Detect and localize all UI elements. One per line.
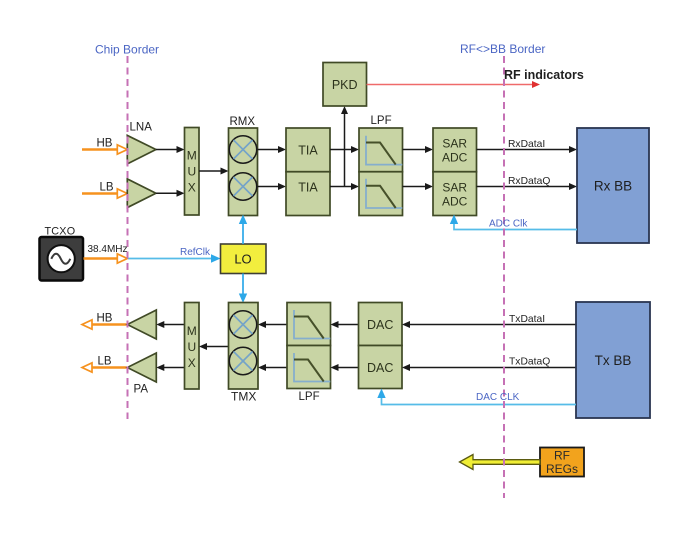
wire TxDataQ [402, 364, 576, 371]
wire DAC to LPF (Q) [331, 364, 359, 371]
wire RF indicators (red) [367, 81, 541, 88]
block LPF Tx (I) [287, 303, 331, 346]
svg-text:DAC: DAC [367, 318, 393, 332]
block LPF Rx (I) [359, 128, 403, 172]
wire LPF to SAR ADC (Q) [403, 183, 434, 190]
svg-text:RxDataI: RxDataI [508, 139, 545, 150]
svg-text:TIA: TIA [298, 181, 318, 195]
border line Chip Border (dashed) [127, 56, 129, 419]
svg-text:HB: HB [97, 313, 113, 325]
svg-text:U: U [187, 340, 196, 354]
svg-text:X: X [188, 356, 196, 370]
svg-text:RMX: RMX [230, 116, 256, 128]
svg-text:ADC: ADC [442, 151, 468, 165]
block Tx BB [576, 302, 650, 418]
svg-text:TMX: TMX [231, 390, 256, 404]
filter curve LPF Tx I [294, 310, 330, 339]
wire TxDataI [402, 321, 576, 328]
mixer TMX-I [229, 311, 256, 338]
wire MUX to RMX [199, 168, 229, 175]
wire TCXO 38.4MHz output (orange) [84, 254, 128, 263]
svg-text:M: M [187, 149, 197, 163]
wire DAC to LPF (I) [331, 321, 359, 328]
arrow RF REGs bus (yellow) [460, 455, 541, 470]
wire DAC CLK (light blue) [377, 389, 576, 405]
block TMX [229, 303, 259, 390]
block LPF Tx (Q) [287, 346, 331, 389]
filter curve LPF Rx Q [366, 179, 402, 208]
block Rx BB [577, 128, 649, 243]
block PKD [323, 63, 367, 107]
svg-text:PA: PA [134, 384, 149, 396]
svg-text:SAR: SAR [442, 181, 467, 195]
wire ADC Clk (light blue) [450, 215, 577, 230]
wire LPF to SAR ADC (I) [403, 146, 434, 153]
wire RxDataQ [477, 183, 578, 190]
block MUX (Tx) [185, 303, 200, 390]
svg-text:REGs: REGs [546, 462, 578, 476]
block SAR ADC (Q) [433, 172, 477, 216]
wire TIA to LPF (Q) [330, 183, 359, 190]
wire LO to RMX (light blue, up) [239, 215, 247, 245]
wire LPF to TMX (Q) [258, 364, 287, 371]
block MUX (Rx) [185, 128, 200, 216]
wire LNA-LB to MUX [156, 190, 185, 197]
svg-text:ADC Clk: ADC Clk [489, 219, 528, 230]
wire RMX to TIA (Q) [258, 183, 287, 190]
wire MUX to PA (LB) [156, 364, 184, 371]
wire LB input (orange) [82, 189, 127, 198]
block RF REGs [540, 448, 584, 477]
svg-text:LO: LO [234, 252, 251, 267]
block RMX [229, 128, 258, 216]
svg-text:RxDataQ: RxDataQ [508, 176, 550, 187]
svg-text:TCXO: TCXO [45, 226, 76, 238]
mixer TMX-Q [229, 347, 256, 374]
svg-text:TIA: TIA [298, 144, 318, 158]
wire TMX to MUX [199, 343, 229, 350]
svg-text:DAC: DAC [367, 361, 393, 375]
block LPF Rx (Q) [359, 172, 403, 216]
mixer RMX-I [229, 136, 256, 163]
svg-text:LPF: LPF [371, 115, 392, 127]
filter curve LPF Tx Q [294, 353, 330, 382]
wire LNA-HB to MUX [156, 146, 185, 153]
wire LPF to TMX (I) [258, 321, 287, 328]
amplifier LNA (HB) [127, 135, 156, 164]
wire LO to TMX (light blue, down) [239, 274, 247, 304]
svg-text:RF<>BB Border: RF<>BB Border [460, 42, 545, 56]
svg-text:Chip Border: Chip Border [95, 43, 159, 57]
block SAR ADC (I) [433, 128, 477, 172]
wire RefClk (light blue) [128, 254, 221, 262]
svg-text:38.4MHz: 38.4MHz [88, 244, 128, 255]
svg-text:PKD: PKD [332, 78, 358, 92]
wire LB output (orange, Tx) [82, 363, 127, 372]
block TCXO [40, 237, 84, 281]
border line RF-BB Border (dashed) [503, 56, 505, 498]
svg-text:TxDataQ: TxDataQ [509, 357, 550, 368]
svg-text:LNA: LNA [130, 122, 153, 134]
svg-text:LB: LB [98, 356, 112, 368]
wire RxDataI [477, 146, 578, 153]
svg-text:LB: LB [100, 182, 114, 194]
svg-text:DAC CLK: DAC CLK [476, 392, 520, 403]
svg-text:M: M [187, 324, 197, 338]
svg-text:LPF: LPF [299, 391, 320, 403]
wire MUX to PA (HB) [156, 321, 184, 328]
svg-text:RF: RF [554, 449, 570, 463]
amplifier LNA (LB) [127, 179, 156, 208]
svg-text:SAR: SAR [442, 137, 467, 151]
svg-text:Rx BB: Rx BB [594, 179, 632, 194]
wire junction up to PKD [341, 106, 348, 187]
amplifier PA (LB) [127, 353, 156, 382]
svg-text:TxDataI: TxDataI [509, 314, 545, 325]
amplifier PA (HB) [127, 310, 156, 339]
wire HB input (orange) [82, 145, 127, 154]
filter curve LPF Rx I [366, 136, 402, 165]
svg-text:HB: HB [97, 138, 113, 150]
svg-text:ADC: ADC [442, 195, 468, 209]
svg-text:RefClk: RefClk [180, 247, 211, 258]
svg-text:U: U [187, 165, 196, 179]
block DAC (Q) [359, 346, 403, 389]
mixer RMX-Q [229, 173, 256, 200]
wire TIA to LPF (I) with junction to PKD [330, 146, 359, 153]
svg-text:RF indicators: RF indicators [504, 68, 584, 82]
svg-text:Tx BB: Tx BB [595, 353, 632, 368]
svg-text:X: X [188, 181, 196, 195]
wire RMX to TIA (I) [258, 146, 287, 153]
wire HB output (orange, Tx) [82, 320, 127, 329]
block TIA (I) [286, 128, 330, 172]
block LO [221, 244, 267, 274]
block TIA (Q) [286, 172, 330, 216]
block DAC (I) [359, 303, 403, 346]
